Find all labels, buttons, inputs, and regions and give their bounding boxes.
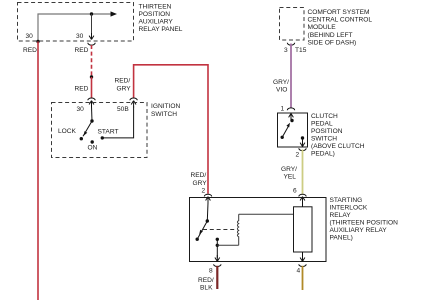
svg-text:CENTRAL CONTROL: CENTRAL CONTROL xyxy=(308,17,373,24)
arrow: clutch terminal 2 pointing down xyxy=(300,139,305,147)
contact dot terminal 2 inside clutch switch xyxy=(301,136,304,139)
label START xyxy=(98,129,119,136)
svg-text:PEDAL): PEDAL) xyxy=(311,151,335,158)
clutch pedal position switch box xyxy=(278,113,308,147)
svg-text:1: 1 xyxy=(281,106,285,113)
connector cup at ignition terminal 50B xyxy=(130,98,137,100)
connector cup at relay terminal 8 xyxy=(214,264,221,266)
contact dot START position xyxy=(101,136,104,139)
svg-text:MODULE: MODULE xyxy=(308,24,337,31)
label LOCK xyxy=(58,128,77,135)
svg-text:30: 30 xyxy=(76,33,84,40)
svg-text:IGNITION: IGNITION xyxy=(151,103,181,110)
arrow: terminal 30 (right) pointing down xyxy=(89,33,94,40)
comfort system central control module label xyxy=(308,9,373,46)
connector cup at clutch terminal 1 xyxy=(287,108,294,110)
label T15 xyxy=(295,47,307,54)
label terminal 30 right xyxy=(76,33,84,40)
svg-text:GRY: GRY xyxy=(193,180,208,187)
svg-text:(BEHIND LEFT: (BEHIND LEFT xyxy=(308,32,353,39)
junction dot on gray bus xyxy=(90,12,93,15)
label terminal 3 xyxy=(284,47,288,54)
label RED/ GRY at relay terminal 2 xyxy=(191,172,208,187)
arrow: ignition terminal 50B pointing up xyxy=(131,101,136,108)
label GRY/ YEL xyxy=(281,166,297,181)
svg-text:(THIRTEEN POSITION: (THIRTEEN POSITION xyxy=(330,220,399,227)
ignition switch label xyxy=(151,103,181,118)
svg-text:4: 4 xyxy=(297,268,301,275)
svg-text:PEDAL: PEDAL xyxy=(311,121,333,128)
arrow: relay terminal 8 pointing down xyxy=(215,255,220,261)
svg-text:POSITION: POSITION xyxy=(311,128,343,135)
svg-text:(ABOVE CLUTCH: (ABOVE CLUTCH xyxy=(311,143,365,150)
svg-text:8: 8 xyxy=(209,268,213,275)
wire: coil top to terminal 6 xyxy=(302,203,304,207)
svg-text:RED/: RED/ xyxy=(115,78,131,85)
label terminal 30 inside ignition switch xyxy=(77,106,85,113)
svg-text:AUXILIARY RELAY: AUXILIARY RELAY xyxy=(330,227,388,234)
svg-text:YEL: YEL xyxy=(284,174,297,181)
junction dot: terminal 30 left on panel edge xyxy=(36,40,39,43)
svg-text:RED: RED xyxy=(23,47,37,54)
label terminal 2 of relay xyxy=(202,188,206,195)
wire: RED dashed segment below terminal 30 right xyxy=(91,45,93,77)
svg-text:RED/: RED/ xyxy=(198,277,214,284)
contact dot at relay lever end xyxy=(196,238,199,241)
svg-text:ON: ON xyxy=(88,145,98,152)
svg-text:RELAY PANEL: RELAY PANEL xyxy=(139,26,183,33)
junction dot on red wire xyxy=(90,75,93,78)
ignition switch lever with arrowhead xyxy=(83,121,92,136)
connector cup at terminal 30 right xyxy=(88,43,95,45)
svg-text:SWITCH: SWITCH xyxy=(311,136,337,143)
wire: brown/yellow from relay terminal 4 xyxy=(302,266,304,290)
contact dot at clutch lever base xyxy=(281,136,284,139)
connector cup at comfort module terminal 3 xyxy=(287,43,294,45)
contact dot fixed contact of relay xyxy=(216,238,219,241)
svg-text:RED: RED xyxy=(75,86,89,93)
label GRY/ VIO xyxy=(273,79,289,94)
starting interlock relay label xyxy=(330,197,399,242)
wire: ignition common from terminal 30 to pivot xyxy=(91,107,94,122)
label terminal 50B inside ignition switch xyxy=(117,106,129,113)
contact dot terminal 1 inside clutch switch xyxy=(290,119,293,122)
svg-text:RED/: RED/ xyxy=(191,172,207,179)
svg-text:RELAY: RELAY xyxy=(330,212,352,219)
svg-text:VIO: VIO xyxy=(276,87,287,94)
contact dot LOCK position xyxy=(80,137,83,140)
label terminal 8 xyxy=(209,268,213,275)
svg-text:COMFORT SYSTEM: COMFORT SYSTEM xyxy=(308,9,370,16)
arrow: continuation arrow right end of gray bus xyxy=(111,11,118,16)
label RED/ GRY near ignition 50B xyxy=(115,78,132,93)
junction dot on terminal 8 branch xyxy=(216,244,219,247)
label RED right wire (lower) xyxy=(75,86,89,93)
wire: branch from gray bus down to terminal 30 xyxy=(91,14,93,35)
svg-text:30: 30 xyxy=(77,106,85,113)
svg-text:SWITCH: SWITCH xyxy=(151,111,177,118)
relay lever with arrowhead xyxy=(197,221,207,239)
connector cup at ignition terminal 30 xyxy=(88,98,95,100)
dashed actuator link of relay xyxy=(203,229,237,231)
wire: gray bus inside aux relay panel xyxy=(38,14,113,42)
label terminal 2 of clutch switch xyxy=(296,152,300,159)
svg-text:LOCK: LOCK xyxy=(58,128,77,135)
svg-text:START: START xyxy=(98,129,119,136)
label terminal 4 xyxy=(297,268,301,275)
label RED left wire xyxy=(23,47,37,54)
svg-text:GRY/: GRY/ xyxy=(281,166,297,173)
contact dot ON position xyxy=(91,140,94,143)
svg-text:SIDE OF DASH): SIDE OF DASH) xyxy=(308,39,357,46)
thirteen position auxiliary relay panel label xyxy=(139,4,183,33)
wire: RED from ignition 50B up and right to interlock relay terminal 2 xyxy=(134,65,208,194)
connector cup at relay terminal 4 xyxy=(299,264,306,266)
label RED right wire (upper) xyxy=(75,47,89,54)
wire: armature spring top to coil left side xyxy=(239,213,294,215)
svg-text:THIRTEEN: THIRTEEN xyxy=(139,4,172,11)
clutch switch lever with arrowhead xyxy=(282,123,290,138)
svg-text:2: 2 xyxy=(202,188,206,195)
svg-text:PANEL): PANEL) xyxy=(330,235,353,242)
wire: RED/BLK from relay terminal 8 xyxy=(216,266,218,289)
svg-text:STARTING: STARTING xyxy=(330,197,363,204)
label terminal 6 of relay xyxy=(293,188,297,195)
svg-text:50B: 50B xyxy=(117,106,129,113)
svg-text:GRY/: GRY/ xyxy=(273,79,289,86)
armature spring element xyxy=(237,214,238,245)
arrow: clutch terminal 1 pointing up xyxy=(289,114,294,120)
connector cup at clutch terminal 2 xyxy=(299,148,306,150)
label terminal 1 of clutch switch xyxy=(281,106,285,113)
svg-text:AUXILIARY: AUXILIARY xyxy=(139,19,174,26)
wire: RED solid down to ignition switch terminal 30 xyxy=(91,77,93,98)
arrow: relay terminal 4 pointing down xyxy=(300,255,305,261)
arrow: ignition terminal 30 pointing up xyxy=(89,101,94,108)
arrow: relay terminal 6 pointing up xyxy=(300,197,305,203)
svg-text:POSITION: POSITION xyxy=(139,11,171,18)
svg-text:BLK: BLK xyxy=(200,285,213,292)
label RED/ BLK xyxy=(198,277,214,292)
svg-text:T15: T15 xyxy=(295,47,307,54)
pivot dot of relay switch xyxy=(206,219,209,222)
svg-text:2: 2 xyxy=(296,152,300,159)
connector cup at relay terminal 6 xyxy=(299,194,306,196)
label ON xyxy=(88,145,98,152)
relay coil rectangle xyxy=(294,207,313,252)
wire: fixed contact down to terminal 8 xyxy=(216,239,218,258)
comfort system central control module box xyxy=(280,8,305,41)
wire: GRY/VIO from comfort module to clutch switch terminal 1 xyxy=(290,44,292,108)
starting interlock relay box xyxy=(190,198,327,262)
svg-text:RED: RED xyxy=(75,47,89,54)
svg-text:6: 6 xyxy=(293,188,297,195)
wire: relay terminal 2 down to pivot xyxy=(206,203,209,221)
clutch pedal position switch label xyxy=(311,113,365,158)
thirteen position auxiliary relay panel box xyxy=(18,3,134,42)
wire: branch from terminal 8 line to armature spring xyxy=(217,244,238,246)
ignition switch box xyxy=(52,103,148,158)
pivot dot of ignition switch xyxy=(90,119,93,122)
svg-text:30: 30 xyxy=(26,33,34,40)
wire: GRY/YEL from clutch switch to relay terminal 6 xyxy=(302,150,304,194)
connector cup at relay terminal 2 xyxy=(204,194,211,196)
arrow: relay terminal 2 pointing up xyxy=(206,197,211,203)
wire: RED left vertical to bottom of page xyxy=(37,42,39,300)
label terminal 30 left xyxy=(26,33,34,40)
svg-text:CLUTCH: CLUTCH xyxy=(311,113,338,120)
svg-text:GRY: GRY xyxy=(117,86,132,93)
wire: START contact to terminal 50B xyxy=(102,107,133,138)
wire: coil bottom to terminal 4 xyxy=(302,252,304,257)
svg-text:INTERLOCK: INTERLOCK xyxy=(330,205,368,212)
svg-text:3: 3 xyxy=(284,47,288,54)
